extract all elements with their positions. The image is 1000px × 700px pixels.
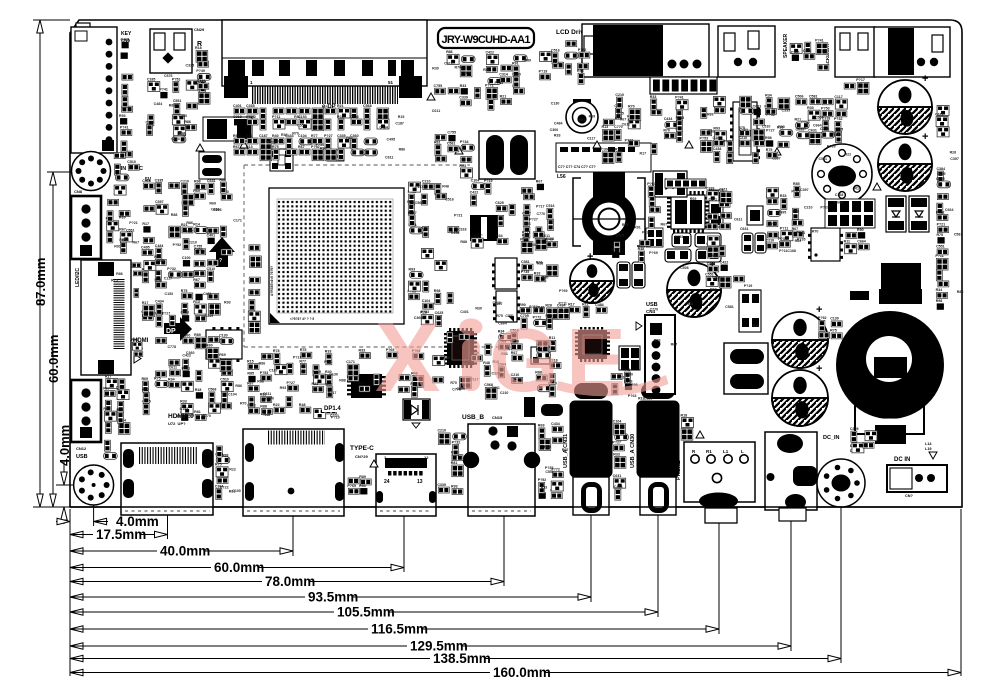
svg-text:CN8: CN8 bbox=[74, 189, 83, 194]
component cluster I3 top right corner bbox=[844, 78, 869, 94]
svg-text:C339: C339 bbox=[204, 314, 213, 318]
svg-text:C625: C625 bbox=[495, 201, 504, 205]
connector LVDS panel socket bbox=[222, 20, 427, 98]
svg-text:C551: C551 bbox=[936, 245, 945, 249]
svg-text:C422: C422 bbox=[182, 354, 191, 358]
svg-text:P?41: P?41 bbox=[797, 231, 806, 235]
svg-text:+: + bbox=[587, 251, 593, 263]
svg-text:C631: C631 bbox=[207, 179, 216, 183]
svg-text:SPEAKER: SPEAKER bbox=[783, 33, 789, 58]
svg-text:R34: R34 bbox=[936, 288, 943, 292]
svg-text:R88: R88 bbox=[687, 302, 694, 306]
regulator U1 (two big pads) bbox=[203, 117, 252, 141]
svg-text:P?27: P?27 bbox=[612, 441, 621, 445]
svg-text:P?19: P?19 bbox=[484, 179, 493, 183]
label LCD Driver bbox=[556, 29, 590, 36]
svg-text:P?11: P?11 bbox=[272, 115, 280, 119]
connector USB_A 1 bbox=[563, 383, 612, 515]
svg-text:R33: R33 bbox=[483, 68, 490, 72]
svg-text:P?72: P?72 bbox=[485, 83, 494, 87]
svg-text:P?27: P?27 bbox=[766, 129, 775, 133]
svg-text:C185: C185 bbox=[147, 77, 156, 81]
connector HDMI 2 (HDMI2.0) bbox=[243, 429, 344, 516]
component cluster D3 right of BGA bbox=[407, 179, 459, 326]
svg-text:C117: C117 bbox=[834, 95, 842, 99]
svg-text:C581: C581 bbox=[447, 142, 456, 146]
svg-text:C516: C516 bbox=[546, 204, 555, 208]
svg-text:L: L bbox=[741, 449, 744, 454]
component cluster I2 between CN29 LVDS bbox=[195, 46, 211, 89]
svg-text:R21: R21 bbox=[500, 94, 507, 98]
svg-text:P?11: P?11 bbox=[324, 360, 332, 364]
svg-text:C611: C611 bbox=[734, 218, 742, 222]
svg-text:P?34: P?34 bbox=[460, 140, 469, 144]
arrow up symbol (silkscreen) bbox=[209, 237, 235, 267]
svg-text:C401: C401 bbox=[233, 104, 242, 108]
svg-text:R91: R91 bbox=[634, 226, 641, 230]
svg-text:R69: R69 bbox=[193, 189, 200, 193]
PCB board outline bbox=[70, 20, 962, 507]
svg-text:R86: R86 bbox=[116, 272, 123, 276]
speaker/transducer SP1 (circle with pin ring) bbox=[812, 144, 872, 204]
diode D46 (power diode near USB_B) bbox=[403, 399, 430, 428]
svg-text:C510: C510 bbox=[762, 124, 771, 128]
svg-text:R89: R89 bbox=[194, 333, 201, 337]
svg-text:R69: R69 bbox=[638, 245, 645, 249]
svg-text:C401: C401 bbox=[203, 292, 212, 296]
svg-text:C187: C187 bbox=[395, 121, 404, 125]
svg-text:R13: R13 bbox=[193, 300, 200, 304]
svg-text:C171: C171 bbox=[346, 360, 355, 364]
component cluster B1b below LVDS row2 bbox=[233, 134, 378, 161]
svg-text:R81: R81 bbox=[451, 461, 458, 465]
connector CN6 (KEY) bbox=[71, 27, 132, 153]
component cluster G3 left of TYPE-C bbox=[347, 475, 371, 495]
connector TYPE-C bbox=[376, 454, 436, 516]
dimension 60.0mm vertical line bbox=[46, 172, 74, 507]
svg-text:C335: C335 bbox=[835, 127, 844, 131]
svg-text:C568: C568 bbox=[415, 201, 424, 205]
svg-text:R28: R28 bbox=[950, 151, 957, 155]
svg-text:P?69: P?69 bbox=[529, 305, 538, 309]
svg-text:P?17: P?17 bbox=[408, 211, 417, 215]
capacitor TC5 bbox=[772, 304, 828, 368]
svg-text:P?21: P?21 bbox=[129, 221, 138, 225]
svg-text:P?41: P?41 bbox=[120, 125, 129, 129]
svg-text:DP1.4: DP1.4 bbox=[324, 406, 341, 412]
svg-text:R69: R69 bbox=[690, 197, 697, 201]
board bottom edge (over connectors) bbox=[70, 506, 962, 508]
svg-text:R67: R67 bbox=[142, 388, 149, 392]
svg-text:C434: C434 bbox=[664, 117, 673, 121]
svg-text:R13: R13 bbox=[541, 486, 548, 490]
svg-text:P?63: P?63 bbox=[791, 190, 800, 194]
svg-text:R77: R77 bbox=[358, 382, 365, 386]
svg-text:C318: C318 bbox=[233, 115, 242, 119]
title label JRY-W9CUHD-AA1 bbox=[438, 28, 534, 48]
inductor L56 (toroid) bbox=[557, 170, 645, 255]
svg-text:R93: R93 bbox=[119, 114, 126, 118]
svg-text:R86: R86 bbox=[184, 120, 191, 124]
connector CN8 (4-pin power) bbox=[71, 189, 101, 259]
svg-text:R34: R34 bbox=[765, 93, 772, 97]
svg-text:87.0mm: 87.0mm bbox=[33, 258, 48, 306]
svg-text:C422: C422 bbox=[470, 191, 479, 195]
svg-text:C506: C506 bbox=[712, 276, 721, 280]
svg-text:R11: R11 bbox=[844, 240, 850, 244]
svg-text:P?11: P?11 bbox=[801, 120, 809, 124]
svg-text:C300: C300 bbox=[550, 128, 559, 132]
svg-text:CN15: CN15 bbox=[492, 415, 503, 420]
svg-text:C495: C495 bbox=[141, 245, 150, 249]
svg-text:C168: C168 bbox=[835, 193, 844, 197]
svg-text:160.0mm: 160.0mm bbox=[493, 665, 551, 680]
svg-text:P?63: P?63 bbox=[647, 182, 656, 186]
svg-text:R70: R70 bbox=[464, 71, 471, 75]
svg-text:C484: C484 bbox=[154, 102, 163, 106]
svg-text:C300: C300 bbox=[791, 50, 800, 54]
connector BACKLIGHT (top) bbox=[825, 27, 875, 77]
svg-text:C384: C384 bbox=[936, 167, 945, 171]
svg-text:R69: R69 bbox=[141, 377, 148, 381]
svg-text:R88: R88 bbox=[219, 178, 226, 182]
svg-text:R93: R93 bbox=[654, 339, 661, 343]
component cluster I5 right mid column bbox=[706, 187, 732, 258]
svg-text:C568: C568 bbox=[208, 388, 217, 392]
svg-text:R34: R34 bbox=[122, 238, 129, 242]
svg-text:C495: C495 bbox=[387, 138, 396, 142]
svg-text:60.0mm: 60.0mm bbox=[214, 560, 264, 575]
component cluster G4 right of TYPE-C bbox=[437, 429, 466, 495]
component cluster G5 between USB_B USB_A bbox=[538, 422, 564, 499]
svg-text:P?32: P?32 bbox=[452, 440, 461, 444]
tiny reference designator texts bbox=[111, 58, 963, 493]
power barrel jack J2 (big black ring) bbox=[836, 289, 944, 451]
svg-text:CN12: CN12 bbox=[76, 446, 87, 451]
svg-text:R67: R67 bbox=[247, 381, 254, 385]
svg-text:P?62: P?62 bbox=[578, 48, 587, 52]
svg-text:93.5mm: 93.5mm bbox=[308, 590, 358, 605]
component cluster G6 between USB_A bbox=[612, 419, 628, 500]
svg-text:P?49: P?49 bbox=[723, 139, 732, 143]
svg-text:C484: C484 bbox=[554, 121, 563, 125]
svg-text:P?32: P?32 bbox=[834, 117, 843, 121]
svg-text:P?25: P?25 bbox=[797, 127, 806, 131]
label HDMI2.0 bbox=[168, 413, 194, 426]
connector PHONE jack block bbox=[676, 442, 755, 523]
svg-text:P?69: P?69 bbox=[649, 251, 658, 255]
svg-text:C335: C335 bbox=[155, 178, 164, 182]
label DP1.4 (redrawn) bbox=[322, 403, 352, 412]
svg-text:C484: C484 bbox=[155, 244, 164, 248]
svg-text:R67: R67 bbox=[562, 448, 569, 452]
component cluster G7 above PHONE bbox=[681, 413, 694, 440]
svg-text:R13: R13 bbox=[615, 147, 622, 151]
svg-text:P?52: P?52 bbox=[936, 210, 945, 214]
svg-text:P?35: P?35 bbox=[797, 238, 806, 242]
svg-text:+: + bbox=[922, 73, 928, 85]
svg-text:R98: R98 bbox=[434, 289, 441, 293]
svg-text:P?69: P?69 bbox=[559, 289, 568, 293]
IC U59a (SOIC8 above HDMI2) bbox=[206, 327, 242, 362]
svg-text:R14: R14 bbox=[193, 222, 200, 226]
svg-text:R89: R89 bbox=[169, 103, 176, 107]
IC U58 (small chip) bbox=[531, 347, 550, 364]
svg-text:C631: C631 bbox=[740, 227, 749, 231]
svg-text:C510: C510 bbox=[220, 377, 229, 381]
svg-text:R60: R60 bbox=[558, 310, 565, 314]
svg-text:C397: C397 bbox=[155, 200, 164, 204]
svg-text:C7? C7? C74 C7? C7?: C7? C7? C74 C7? C7? bbox=[558, 165, 596, 169]
BGA IC U2 (main SoC footprint) bbox=[269, 188, 404, 324]
svg-text:R88: R88 bbox=[957, 290, 964, 294]
svg-text:R67: R67 bbox=[661, 223, 668, 227]
transistor block Q12 bbox=[739, 290, 761, 332]
svg-text:C755: C755 bbox=[434, 84, 443, 88]
svg-text:R17: R17 bbox=[142, 301, 149, 305]
svg-text:C104: C104 bbox=[298, 134, 307, 138]
svg-text:C755: C755 bbox=[936, 177, 945, 181]
svg-text:C581: C581 bbox=[818, 157, 827, 161]
inductor pair L7 (two vertical pills) bbox=[479, 131, 535, 179]
svg-text:C153: C153 bbox=[451, 231, 460, 235]
svg-text:12: 12 bbox=[424, 455, 429, 460]
component cluster F6 near jack bbox=[818, 316, 842, 339]
svg-text:C187: C187 bbox=[269, 369, 278, 373]
dashed module boundary bbox=[244, 165, 515, 347]
svg-text:P?41: P?41 bbox=[159, 88, 168, 92]
svg-text:C664: C664 bbox=[945, 208, 954, 212]
svg-text:R17: R17 bbox=[833, 133, 840, 137]
svg-text:P?11: P?11 bbox=[559, 302, 567, 306]
svg-text:R17: R17 bbox=[142, 222, 149, 226]
svg-text:C104: C104 bbox=[471, 179, 480, 183]
svg-text:P?11: P?11 bbox=[779, 249, 787, 253]
svg-text:CN?: CN? bbox=[905, 494, 913, 498]
svg-text:R60: R60 bbox=[326, 383, 333, 387]
connector DC power jack block bbox=[765, 432, 825, 521]
svg-text:R77: R77 bbox=[311, 134, 318, 138]
svg-text:P?41: P?41 bbox=[675, 96, 684, 100]
component cluster B1 below LVDS row1 bbox=[233, 104, 389, 131]
svg-text:C130: C130 bbox=[551, 101, 560, 105]
capacitor TC21 bbox=[570, 251, 614, 303]
component cluster D6 mid column bbox=[519, 188, 558, 330]
svg-text:C397: C397 bbox=[772, 157, 781, 161]
svg-text:R86: R86 bbox=[186, 221, 193, 225]
svg-text:C339: C339 bbox=[459, 96, 468, 100]
svg-text:USB: USB bbox=[76, 454, 88, 460]
component cluster D2 above TYPE-C bbox=[346, 348, 424, 397]
svg-text:C506: C506 bbox=[680, 266, 689, 270]
svg-text:C611: C611 bbox=[444, 61, 452, 65]
component cluster F1 right cluster bbox=[766, 182, 804, 249]
svg-text:C664: C664 bbox=[857, 240, 866, 244]
svg-text:C210: C210 bbox=[766, 239, 775, 243]
svg-text:R22: R22 bbox=[229, 468, 236, 472]
label TYPE-C bbox=[350, 445, 374, 459]
connector power (top right, with black body) bbox=[874, 27, 950, 77]
svg-text:C314: C314 bbox=[499, 73, 508, 77]
svg-text:P?27: P?27 bbox=[286, 381, 295, 385]
svg-text:C568: C568 bbox=[142, 179, 151, 183]
IC U10b (SOIC8 right of BGA b) bbox=[493, 291, 520, 322]
IC U11 (SOIC8) bbox=[808, 228, 843, 261]
component cluster E4 row above pills bbox=[611, 240, 650, 262]
capacitor E12 bbox=[878, 131, 932, 191]
svg-text:P?69: P?69 bbox=[347, 484, 356, 488]
label e-DP bbox=[322, 104, 336, 110]
svg-text:<?5?3? 4? ? ? 5: <?5?3? 4? ? ? 5 bbox=[290, 317, 314, 321]
svg-text:A?RS5E<4<9 ?3?5?: A?RS5E<4<9 ?3?5? bbox=[270, 266, 274, 296]
svg-text:P?21: P?21 bbox=[182, 367, 191, 371]
connector DC IN (right edge) bbox=[887, 452, 947, 498]
svg-text:R81: R81 bbox=[579, 118, 586, 122]
svg-text:P?53: P?53 bbox=[700, 136, 709, 140]
svg-text:C778: C778 bbox=[452, 388, 461, 392]
svg-text:P?19: P?19 bbox=[331, 415, 340, 419]
svg-text:C335: C335 bbox=[186, 63, 195, 67]
svg-text:R48: R48 bbox=[299, 403, 306, 407]
svg-text:C611: C611 bbox=[385, 155, 393, 159]
svg-text:R88: R88 bbox=[407, 200, 414, 204]
component cluster A1 below KEY bbox=[119, 38, 133, 157]
component cluster B5 right of buzzer bbox=[601, 93, 641, 164]
svg-text:P?53: P?53 bbox=[260, 371, 269, 375]
label HDMI bbox=[133, 338, 149, 363]
svg-text:R81: R81 bbox=[229, 490, 236, 494]
svg-text:C676: C676 bbox=[164, 74, 173, 78]
svg-text:R86: R86 bbox=[446, 50, 453, 54]
svg-text:C434: C434 bbox=[551, 422, 560, 426]
svg-text:P?21: P?21 bbox=[454, 214, 463, 218]
svg-text:R93: R93 bbox=[359, 484, 366, 488]
svg-text:R67: R67 bbox=[298, 145, 305, 149]
svg-text:P?63: P?63 bbox=[628, 394, 637, 398]
crystal Y1 bbox=[270, 149, 293, 171]
svg-text:R15: R15 bbox=[854, 186, 861, 190]
svg-text:R15: R15 bbox=[398, 115, 405, 119]
svg-text:116.5mm: 116.5mm bbox=[371, 622, 428, 637]
svg-text:R70: R70 bbox=[450, 381, 457, 385]
svg-text:C339: C339 bbox=[437, 483, 446, 487]
svg-text:R33: R33 bbox=[613, 452, 620, 456]
svg-text:C360: C360 bbox=[179, 114, 188, 118]
svg-text:R91: R91 bbox=[278, 139, 285, 143]
svg-text:P?49: P?49 bbox=[196, 69, 205, 73]
svg-text:C581: C581 bbox=[521, 260, 530, 264]
svg-text:LED/I2C: LED/I2C bbox=[75, 267, 81, 287]
component cluster C5 HDMI2 area bbox=[141, 333, 233, 421]
svg-text:P?49: P?49 bbox=[337, 115, 346, 119]
connector DC_IN round (7-pin) bbox=[817, 435, 865, 507]
svg-text:R75: R75 bbox=[272, 145, 279, 149]
svg-text:C395: C395 bbox=[850, 427, 859, 431]
svg-text:C611: C611 bbox=[432, 109, 440, 113]
svg-text:P?19: P?19 bbox=[744, 284, 753, 288]
svg-text:R93: R93 bbox=[459, 164, 466, 168]
svg-text:R93: R93 bbox=[157, 259, 164, 263]
svg-text:C770: C770 bbox=[202, 414, 211, 418]
svg-text:+: + bbox=[816, 304, 822, 316]
svg-text:R67: R67 bbox=[119, 228, 126, 232]
svg-text:R30: R30 bbox=[475, 307, 482, 311]
svg-text:+: + bbox=[922, 131, 928, 143]
svg-text:R21: R21 bbox=[337, 104, 344, 108]
svg-text:R85: R85 bbox=[247, 372, 254, 376]
svg-text:R81: R81 bbox=[194, 410, 201, 414]
svg-text:P?53: P?53 bbox=[495, 81, 504, 85]
component cluster G1 left of HDMI1 bbox=[104, 440, 118, 459]
svg-text:R67: R67 bbox=[233, 134, 240, 138]
svg-text:R30: R30 bbox=[432, 67, 439, 71]
svg-text:R86: R86 bbox=[188, 413, 195, 417]
svg-text:P?35: P?35 bbox=[521, 270, 530, 274]
svg-text:C434: C434 bbox=[211, 208, 220, 212]
svg-text:R75: R75 bbox=[181, 289, 188, 293]
svg-text:P?32: P?32 bbox=[167, 267, 176, 271]
svg-text:C210: C210 bbox=[180, 179, 189, 183]
svg-text:C117: C117 bbox=[587, 137, 595, 141]
quad pad (hatched square group near USB CN4) bbox=[619, 346, 640, 370]
svg-text:PHONE: PHONE bbox=[676, 460, 682, 480]
svg-text:C117: C117 bbox=[415, 185, 423, 189]
svg-text:C506: C506 bbox=[795, 95, 804, 99]
svg-text:R33: R33 bbox=[359, 348, 366, 352]
svg-text:R69: R69 bbox=[589, 114, 596, 118]
svg-text:P?27: P?27 bbox=[324, 134, 333, 138]
svg-text:C210: C210 bbox=[804, 205, 813, 209]
svg-text:R81: R81 bbox=[294, 115, 301, 119]
svg-text:L56: L56 bbox=[557, 174, 566, 180]
svg-text:R93: R93 bbox=[451, 484, 458, 488]
svg-text:R17: R17 bbox=[640, 151, 647, 155]
svg-text:R48: R48 bbox=[264, 413, 271, 417]
component cluster E1 left of QFP bbox=[647, 182, 660, 228]
component cluster F3 below speaker row bbox=[844, 228, 870, 254]
connector USB round (bottom left 7-pin) bbox=[74, 465, 114, 505]
svg-text:C568: C568 bbox=[363, 104, 372, 108]
svg-text:L19: L19 bbox=[925, 447, 932, 451]
svg-text:R69: R69 bbox=[119, 215, 126, 219]
svg-text:C434: C434 bbox=[155, 300, 164, 304]
triangle marks (silkscreen warnings) bbox=[196, 93, 881, 467]
svg-text:R75: R75 bbox=[936, 233, 943, 237]
svg-text:P?11: P?11 bbox=[522, 230, 530, 234]
svg-text:C516: C516 bbox=[445, 198, 454, 202]
IC U7 (SOP16 top right) bbox=[730, 102, 760, 161]
svg-text:R13: R13 bbox=[601, 125, 608, 129]
power block solid (top right) bbox=[881, 263, 921, 303]
crystal X2 bbox=[199, 152, 225, 179]
dimension 4.0mm vertical (left) bbox=[56, 425, 92, 524]
svg-text:R93: R93 bbox=[777, 125, 784, 129]
svg-text:R91: R91 bbox=[114, 244, 121, 248]
component cluster D5 mid bbox=[470, 179, 547, 250]
svg-text:C778: C778 bbox=[167, 345, 176, 349]
component cluster B4 below LCD-driver bbox=[539, 41, 590, 85]
svg-text:R69: R69 bbox=[538, 424, 545, 428]
ferrite L63 (black pill left of USB_A1) bbox=[524, 397, 563, 417]
svg-text:R88: R88 bbox=[171, 213, 178, 217]
component cluster B7 mini cluster top bbox=[790, 39, 829, 71]
svg-text:R86: R86 bbox=[259, 361, 266, 365]
IC U15 (QFN small right) bbox=[747, 206, 763, 225]
svg-text:C401: C401 bbox=[207, 233, 216, 237]
svg-text:C187: C187 bbox=[259, 134, 268, 138]
svg-text:R34: R34 bbox=[496, 234, 503, 238]
svg-text:C611: C611 bbox=[542, 234, 550, 238]
